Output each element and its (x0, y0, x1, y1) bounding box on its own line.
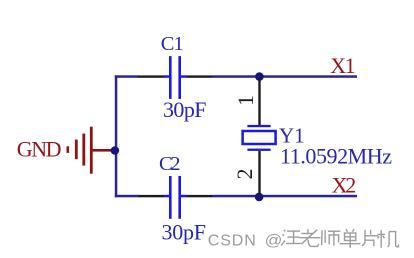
crystal Y1 body rectangle (243, 131, 276, 144)
svg-text:CSDN: CSDN (208, 233, 256, 250)
watermark hanzi lao (300, 229, 321, 246)
crystal Y1 bottom electrode plate (247, 149, 270, 151)
wire: top horizontal from corner to C1 pin (115, 75, 140, 78)
svg-text:30pF: 30pF (162, 220, 207, 245)
wire: top horizontal from C1 to X1 end (213, 75, 358, 78)
capacitor C2 pin 1 (black) (139, 195, 165, 197)
capacitor C1 left lead stub (164, 75, 170, 78)
capacitor C2 left plate (169, 176, 172, 219)
svg-text:@: @ (265, 233, 283, 250)
capacitor C1 pin 2 (black) (187, 75, 213, 77)
capacitor C2 left lead stub (164, 195, 170, 198)
svg-text:11.0592MHz: 11.0592MHz (280, 143, 392, 168)
capacitor C2 pin 2 (black) (187, 195, 213, 197)
wire: left vertical bus (115, 75, 118, 197)
svg-text:C2: C2 (159, 153, 181, 175)
crystal Y1 pin 1 wire (black) (258, 78, 260, 125)
watermark hanzi pian (362, 230, 379, 247)
crystal Y1 pin 2 wire (black) (258, 151, 260, 195)
junction node at X1 (255, 72, 264, 81)
capacitor C2 right lead stub (181, 195, 187, 198)
ground symbol stub (dark red) (93, 149, 113, 152)
svg-text:30pF: 30pF (163, 97, 207, 122)
svg-text:1: 1 (233, 95, 258, 106)
watermark hanzi shi (322, 230, 341, 245)
svg-text:C1: C1 (161, 33, 184, 55)
junction node at X2 (255, 193, 264, 202)
ground bar 4 (smallest) (67, 146, 70, 153)
watermark hanzi wang (281, 230, 301, 246)
svg-text:X2: X2 (332, 173, 357, 198)
capacitor C1 pin 1 (black) (139, 75, 165, 77)
junction node at GND on bus (111, 146, 120, 155)
capacitor C1 left plate (169, 56, 172, 99)
capacitor C1 right plate (178, 56, 181, 99)
crystal Y1 top electrode plate (247, 125, 270, 127)
capacitor C2 right plate (178, 176, 181, 219)
capacitor C1 right lead stub (181, 75, 187, 78)
ground bar 1 (tallest) (90, 127, 93, 174)
svg-text:GND: GND (17, 137, 62, 162)
ground bar 2 (82, 134, 85, 166)
watermark hanzi ji (378, 230, 399, 248)
wire: bottom horizontal from C2 to X2 end (213, 195, 358, 198)
svg-text:X1: X1 (330, 53, 355, 78)
wire: bottom horizontal from corner to C2 pin (115, 195, 140, 198)
svg-text:2: 2 (232, 169, 257, 180)
watermark hanzi dan (340, 229, 361, 248)
ground bar 3 (75, 140, 78, 160)
